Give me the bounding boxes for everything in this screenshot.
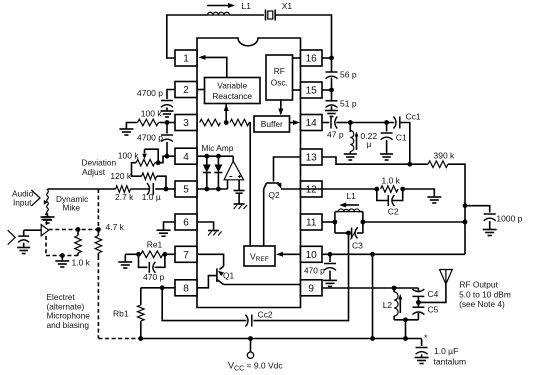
label electret note: [47, 292, 91, 330]
label * footnote: [424, 333, 428, 343]
ground electret input cap: [17, 248, 30, 254]
label X1: [282, 1, 293, 11]
wire pin 9 to L2 tank: [322, 287, 394, 289]
svg-text:Osc.: Osc.: [271, 78, 288, 88]
label 4700 p (pin3-4): [137, 133, 163, 143]
node Cc1 junction: [407, 162, 412, 167]
pin 3 box: [175, 115, 197, 131]
node L2 top: [392, 286, 397, 291]
node pin10 drop: [370, 252, 375, 257]
svg-text:14: 14: [306, 118, 318, 129]
label Vcc = 9.0 Vdc: [228, 361, 283, 373]
capacitor 4700 p (pin2): [161, 101, 173, 111]
wire mic amp plus input to bypass cap: [238, 180, 240, 191]
node 4.7k junction: [96, 227, 101, 232]
svg-text:1.0 µF: 1.0 µF: [434, 346, 458, 356]
wire dashed electret out: [49, 229, 99, 231]
pin 15 box: [301, 82, 323, 98]
svg-text:Deviation: Deviation: [82, 158, 117, 168]
svg-text:120 k: 120 k: [110, 171, 132, 181]
wire Cc2 run: [162, 288, 246, 321]
ground tantalum: [415, 358, 429, 364]
wire pin 3 to node: [167, 122, 175, 124]
svg-text:µ: µ: [367, 139, 372, 149]
wire pin 15 to node: [322, 89, 332, 91]
label 470 p (pin10): [304, 266, 325, 276]
wire pin 10 line: [322, 253, 465, 255]
svg-text:6: 6: [183, 218, 189, 229]
chevron audio input: [31, 190, 40, 206]
svg-text:(see Note 4): (see Note 4): [459, 299, 505, 309]
capacitor Cc1: [394, 117, 400, 129]
mic amp label: [202, 143, 234, 153]
wire pin 3 node to variable reactance bottom (arrow up): [224, 104, 229, 123]
label C2: [388, 207, 399, 217]
wire pin 7 internal to Q1 emitter: [197, 254, 224, 266]
ground mic amp bypass (slash): [234, 204, 248, 209]
wire Re1 to ground: [125, 254, 138, 261]
resistor Rb1: [138, 305, 145, 321]
svg-text:X1: X1: [282, 1, 293, 11]
svg-text:5: 5: [183, 185, 189, 196]
capacitor 1000 p: [484, 214, 496, 229]
RF oscillator block: [266, 55, 293, 100]
node pin 16: [329, 56, 334, 61]
wire tank to right bus: [363, 221, 465, 223]
chevron electret input: [8, 230, 16, 244]
node L2 bus: [403, 336, 408, 341]
wire node to 390k: [410, 163, 428, 165]
label 1.0 k (pin12): [382, 176, 401, 186]
svg-text:56 p: 56 p: [340, 70, 357, 80]
svg-text:Mike: Mike: [63, 203, 81, 213]
wire X1 to pin 16 node: [275, 15, 331, 58]
wire antenna feed: [418, 284, 446, 302]
svg-text:10: 10: [306, 250, 318, 261]
wire pin 4 to node: [167, 155, 175, 157]
svg-text:100 k: 100 k: [118, 151, 140, 161]
label 390 k: [434, 151, 456, 161]
ground below choke: [344, 154, 357, 160]
svg-text:100 k: 100 k: [141, 109, 163, 119]
svg-text:C2: C2: [388, 207, 399, 217]
wire Cc2 to tank bottom: [253, 233, 348, 321]
transistor Q2 (NPN): [264, 183, 282, 201]
Vref block: [244, 246, 275, 266]
svg-text:470 p: 470 p: [304, 266, 325, 276]
label 0.22 u: [361, 131, 378, 149]
terminal Vcc: [247, 339, 253, 359]
wire pin 13 internal to Q2 base: [274, 157, 301, 182]
wire Vcc bus: [141, 338, 422, 340]
label 470 p (pin7): [143, 272, 165, 282]
pin 16 box: [301, 50, 323, 66]
svg-text:tantalum: tantalum: [434, 357, 467, 367]
label L2: [383, 300, 393, 310]
wire pin 5 internal line: [197, 188, 228, 190]
wire L1 to X1: [230, 14, 265, 16]
svg-text:Cc2: Cc2: [258, 310, 273, 320]
label 1000 p: [496, 214, 522, 224]
label Re1: [147, 240, 163, 250]
ground below C1: [380, 154, 393, 160]
svg-text:and biasing: and biasing: [47, 320, 90, 330]
wire mic amp minus input to pin5 line: [227, 180, 229, 189]
internal resistor pin 3 right half: [230, 119, 249, 126]
wire Q1 base to pin 8: [197, 276, 217, 288]
wire 120k to pin5 node: [157, 176, 166, 189]
wire pin 14 to 47p: [322, 122, 329, 124]
svg-text:C3: C3: [352, 241, 363, 251]
antenna symbol: [440, 270, 453, 285]
svg-text:13: 13: [306, 153, 318, 164]
inductor L2: [394, 288, 402, 320]
svg-text:1.0 k: 1.0 k: [72, 258, 91, 268]
node C1: [384, 120, 389, 125]
wire pin 8 to Rb1: [141, 288, 175, 305]
wire Q1 collector to pin 9: [224, 284, 301, 286]
wire internal pin3 node down to Vref: [249, 123, 250, 247]
wire Rb1 to bus: [140, 321, 142, 339]
label deviation adjust: [82, 158, 117, 178]
tank loop L1/C3: [335, 212, 363, 233]
resistor 100 k (pin3): [138, 119, 167, 126]
ground pin 6: [157, 230, 171, 236]
ground 4700p pin2: [161, 111, 174, 117]
capacitor electret input: [18, 230, 29, 247]
svg-text:16: 16: [306, 54, 318, 65]
svg-text:47 p: 47 p: [327, 130, 344, 140]
svg-text:Q1: Q1: [223, 271, 234, 281]
svg-text:11: 11: [306, 218, 317, 229]
pin 6 box: [175, 214, 197, 230]
wire to 1000 p: [465, 206, 490, 213]
wire pin 5 to 1.0u: [155, 188, 175, 190]
pin 13 box: [301, 149, 323, 165]
wire Cc1 down to pin13 line: [400, 123, 410, 165]
wire pin 16 to node: [322, 57, 332, 59]
wire top feedback loop left (pin1 to L1): [167, 15, 207, 58]
label 100 k pot: [118, 151, 140, 161]
amplifier electret (triangle): [41, 225, 49, 236]
wire 2.7k to mike: [48, 188, 116, 190]
svg-text:L1: L1: [242, 1, 252, 11]
wire dashed 4.7k to bus: [98, 256, 140, 339]
svg-text:L1: L1: [346, 191, 356, 201]
svg-text:390 k: 390 k: [434, 151, 456, 161]
svg-text:Reactance: Reactance: [212, 91, 252, 101]
wire pin 2 to variable reactance: [197, 89, 205, 91]
label 4700 p (pin2): [137, 88, 163, 98]
capacitor 1.0 uF tantalum: [416, 339, 428, 358]
capacitor Cc2: [246, 315, 252, 327]
wire 1.0u to 2.7k: [131, 188, 150, 190]
arrow RF osc to buffer: [278, 100, 283, 116]
wire pin 6 internal to ground: [197, 222, 214, 230]
svg-text:2: 2: [183, 85, 189, 96]
wire L2 tank top edge: [394, 287, 418, 289]
svg-text:4: 4: [183, 152, 189, 163]
ground below 470 p: [323, 280, 337, 286]
wire pin 6 to ground: [164, 222, 176, 230]
label Rb1: [113, 309, 129, 319]
diode D1 (clamp): [203, 156, 211, 189]
node tank bottom (Cc2 riser): [346, 231, 351, 236]
capacitor 1.0 u: [147, 183, 153, 195]
node choke: [348, 120, 353, 125]
label L1 tank: [346, 191, 356, 201]
svg-text:4.7 k: 4.7 k: [106, 222, 125, 232]
ground below 1000 p: [483, 230, 497, 236]
node diode D1 bottom: [204, 187, 209, 192]
node pin11 bus: [463, 220, 468, 225]
resistor 390 k: [428, 161, 448, 168]
label audio input: [12, 188, 34, 207]
node Vcc terminal junction: [248, 336, 253, 341]
capacitor C1: [381, 123, 393, 154]
wire pin 10 internal to Vref (arrow): [276, 252, 301, 257]
node pot right: [156, 160, 161, 165]
label dynamic mike: [56, 194, 88, 213]
node diode D2 bottom: [216, 187, 221, 192]
wire choke node to C1 node: [350, 122, 386, 124]
capacitor 56 p: [326, 58, 338, 90]
resistor 2.7 k: [116, 186, 131, 193]
svg-text:15: 15: [306, 86, 318, 97]
svg-text:Rb1: Rb1: [113, 309, 129, 319]
ground above electret amp: [42, 214, 52, 225]
pin 1 box: [175, 50, 197, 66]
internal resistor pin 3 left half: [200, 119, 221, 126]
capacitor mic amp bypass: [234, 191, 245, 205]
wire pin 13 to 390k: [322, 157, 410, 164]
label C5: [428, 305, 439, 315]
wire dashed 1.0k to ground node: [62, 253, 78, 256]
label 1.0 k (electret): [72, 258, 91, 268]
capacitor 51 p: [326, 90, 338, 110]
wire pin 4 internal line: [197, 156, 233, 161]
label 100 k (pin3): [141, 109, 163, 119]
node electret ground: [60, 253, 65, 258]
pin 4 box: [175, 148, 197, 164]
pin 2 box: [175, 82, 197, 98]
label 47 p: [327, 130, 344, 140]
label 120 k: [110, 171, 132, 181]
ground below 51 p: [325, 111, 338, 117]
wire Q2 emitter to pin 12: [281, 188, 301, 190]
node pin 8 junction: [160, 285, 165, 290]
svg-text:8: 8: [183, 283, 189, 294]
label 56 p: [340, 70, 357, 80]
pin 5 box: [175, 181, 197, 197]
buffer block: [254, 116, 290, 132]
label Cc1: [406, 112, 421, 122]
svg-text:RF: RF: [274, 66, 285, 76]
capacitor 470 p (pin10): [324, 254, 336, 280]
wire 47p to choke node: [336, 122, 350, 124]
svg-text:1000 p: 1000 p: [496, 214, 522, 224]
transistor Q1 (PNP): [217, 266, 235, 284]
wire RF osc to pin 15: [293, 89, 301, 91]
capacitor 470 p (pin7): [139, 254, 165, 272]
node pin 4: [165, 154, 170, 159]
label 1.0 uF tantalum: [434, 346, 467, 367]
wire C1 node to Cc1: [387, 122, 395, 124]
capacitor C2 (parallel): [377, 189, 403, 206]
wire 390k to right bus: [448, 164, 465, 254]
inductor 0.22 uH choke: [350, 123, 358, 154]
wire variable reactance to pin 1 with arrow: [199, 55, 227, 78]
svg-text:Re1: Re1: [147, 240, 163, 250]
op-amp mic amp triangle: [224, 161, 244, 180]
ground Re1: [118, 262, 132, 268]
svg-text:1.0 k: 1.0 k: [382, 176, 401, 186]
node diode D1 top: [204, 154, 209, 159]
node 1.0k left: [374, 187, 379, 192]
pin 7 box: [175, 246, 197, 262]
svg-text:RF Output: RF Output: [460, 280, 499, 290]
label L1 top: [242, 1, 252, 11]
node tank right: [361, 220, 366, 225]
ground electret: [55, 256, 69, 268]
node Rb1 bus: [138, 336, 143, 341]
potentiometer 100 k deviation adjust: [136, 149, 158, 166]
microphone dynamic (coil): [44, 189, 49, 214]
node 470p branch: [328, 252, 333, 257]
svg-text:Input: Input: [13, 197, 32, 207]
node pin10-drop bus: [370, 336, 375, 341]
svg-text:4700 p: 4700 p: [137, 88, 163, 98]
svg-text:Q2: Q2: [269, 190, 280, 200]
svg-text:51 p: 51 p: [340, 99, 357, 109]
inductor L1 (osc coil): [207, 12, 230, 15]
pin 8 box: [175, 280, 197, 296]
wire dashed audio drop: [97, 189, 99, 230]
wire 100k to ground: [126, 123, 137, 129]
node diode D2 top: [216, 154, 221, 159]
node C4/C5 mid: [416, 300, 421, 305]
svg-text:*: *: [424, 333, 428, 343]
label 2.7 k: [115, 192, 134, 202]
svg-text:2.7 k: 2.7 k: [115, 192, 134, 202]
label 4.7 k: [106, 222, 125, 232]
node 1.0k top: [76, 227, 81, 232]
wire pin 11 to tank: [322, 221, 335, 223]
node pin 15: [329, 88, 334, 93]
label C4: [428, 289, 439, 299]
node Re1 right: [163, 252, 168, 257]
ground pin12 network: [427, 197, 441, 203]
svg-text:4700 p: 4700 p: [137, 133, 163, 143]
ground 100k pin3: [119, 129, 133, 135]
resistor 1.0 k (electret): [75, 230, 82, 254]
svg-text:Variable: Variable: [217, 81, 247, 91]
node pin3 internal: [224, 120, 229, 125]
label 51 p: [340, 99, 357, 109]
capacitor C4: [412, 288, 424, 302]
node 1000p branch: [463, 203, 468, 208]
node L2 bottom: [403, 317, 408, 322]
ground dynamic mike: [41, 214, 55, 223]
node Re1 left: [136, 252, 141, 257]
wire L2 bottom to bus: [405, 320, 407, 339]
svg-text:3: 3: [183, 118, 189, 129]
wire pot to pin4 node: [158, 156, 167, 163]
pin 9 box: [301, 280, 323, 296]
wire Q2 collector to Vref: [263, 189, 265, 246]
capacitor 4700 p (pin3-pin4): [161, 123, 173, 157]
svg-text:C1: C1: [396, 133, 407, 143]
node pin 5: [164, 187, 169, 192]
resistor 4.7 k: [95, 230, 102, 257]
arrow over tank L1: [339, 203, 359, 208]
wire pin 12 to 1.0k: [301, 188, 377, 190]
wire electret input: [24, 229, 42, 231]
label 1.0 u: [142, 192, 161, 202]
svg-text:Mic Amp: Mic Amp: [202, 143, 234, 153]
resistor 1.0 k: [381, 186, 398, 193]
svg-text:12: 12: [306, 185, 318, 196]
ground pin 6 internal (slash): [208, 231, 222, 236]
label RF output: [459, 280, 511, 310]
wire pin10 drop to bus: [372, 254, 374, 338]
arrow buffer to pin 14: [290, 120, 301, 125]
label C3: [352, 241, 363, 251]
resistor 120 k: [142, 173, 157, 180]
svg-text:Buffer: Buffer: [261, 119, 283, 129]
svg-text:1.0 µ: 1.0 µ: [142, 192, 161, 202]
pin 12 box: [301, 181, 323, 197]
wire pin 2 to 4700p: [167, 90, 175, 100]
capacitor 47 p: [331, 117, 337, 129]
IC body outline (MC2833) with pin-1 notch: [197, 38, 301, 308]
pin 14 box: [301, 115, 323, 131]
svg-text:Adjust: Adjust: [82, 167, 106, 177]
wire dashed amp to ground node: [46, 236, 62, 256]
variable reactance block U1a: [205, 78, 261, 104]
node pin 3: [165, 120, 170, 125]
label Cc2: [258, 310, 273, 320]
svg-text:5.0 to 10 dBm: 5.0 to 10 dBm: [459, 289, 511, 299]
wire 1.0k to ground: [403, 189, 435, 197]
diode D2 (clamp): [214, 156, 222, 189]
pin 10 box: [301, 246, 323, 262]
node tank left: [333, 220, 338, 225]
svg-text:1: 1: [183, 54, 189, 65]
svg-text:Cc1: Cc1: [406, 112, 421, 122]
crystal X1: [266, 10, 276, 21]
wire RF osc to pin 16: [293, 57, 301, 59]
arrow over L1: [207, 3, 235, 8]
svg-text:C5: C5: [428, 305, 439, 315]
capacitor C3 (trimmer): [351, 227, 358, 240]
pin 11 box: [301, 214, 323, 230]
node 1.0k right: [400, 187, 405, 192]
svg-text:L2: L2: [383, 300, 393, 310]
svg-text:470 p: 470 p: [143, 272, 165, 282]
svg-text:7: 7: [183, 250, 189, 261]
svg-text:9: 9: [308, 283, 314, 294]
svg-text:C4: C4: [428, 289, 439, 299]
wire L2 tank bottom edge: [394, 319, 418, 321]
resistor Re1: [139, 251, 165, 258]
label C1: [396, 133, 407, 143]
wire pot left to 120k: [132, 163, 142, 177]
wire pin 7 to Re1: [165, 253, 175, 255]
capacitor C5: [412, 302, 424, 319]
inductor L1 (tank): [338, 209, 359, 212]
